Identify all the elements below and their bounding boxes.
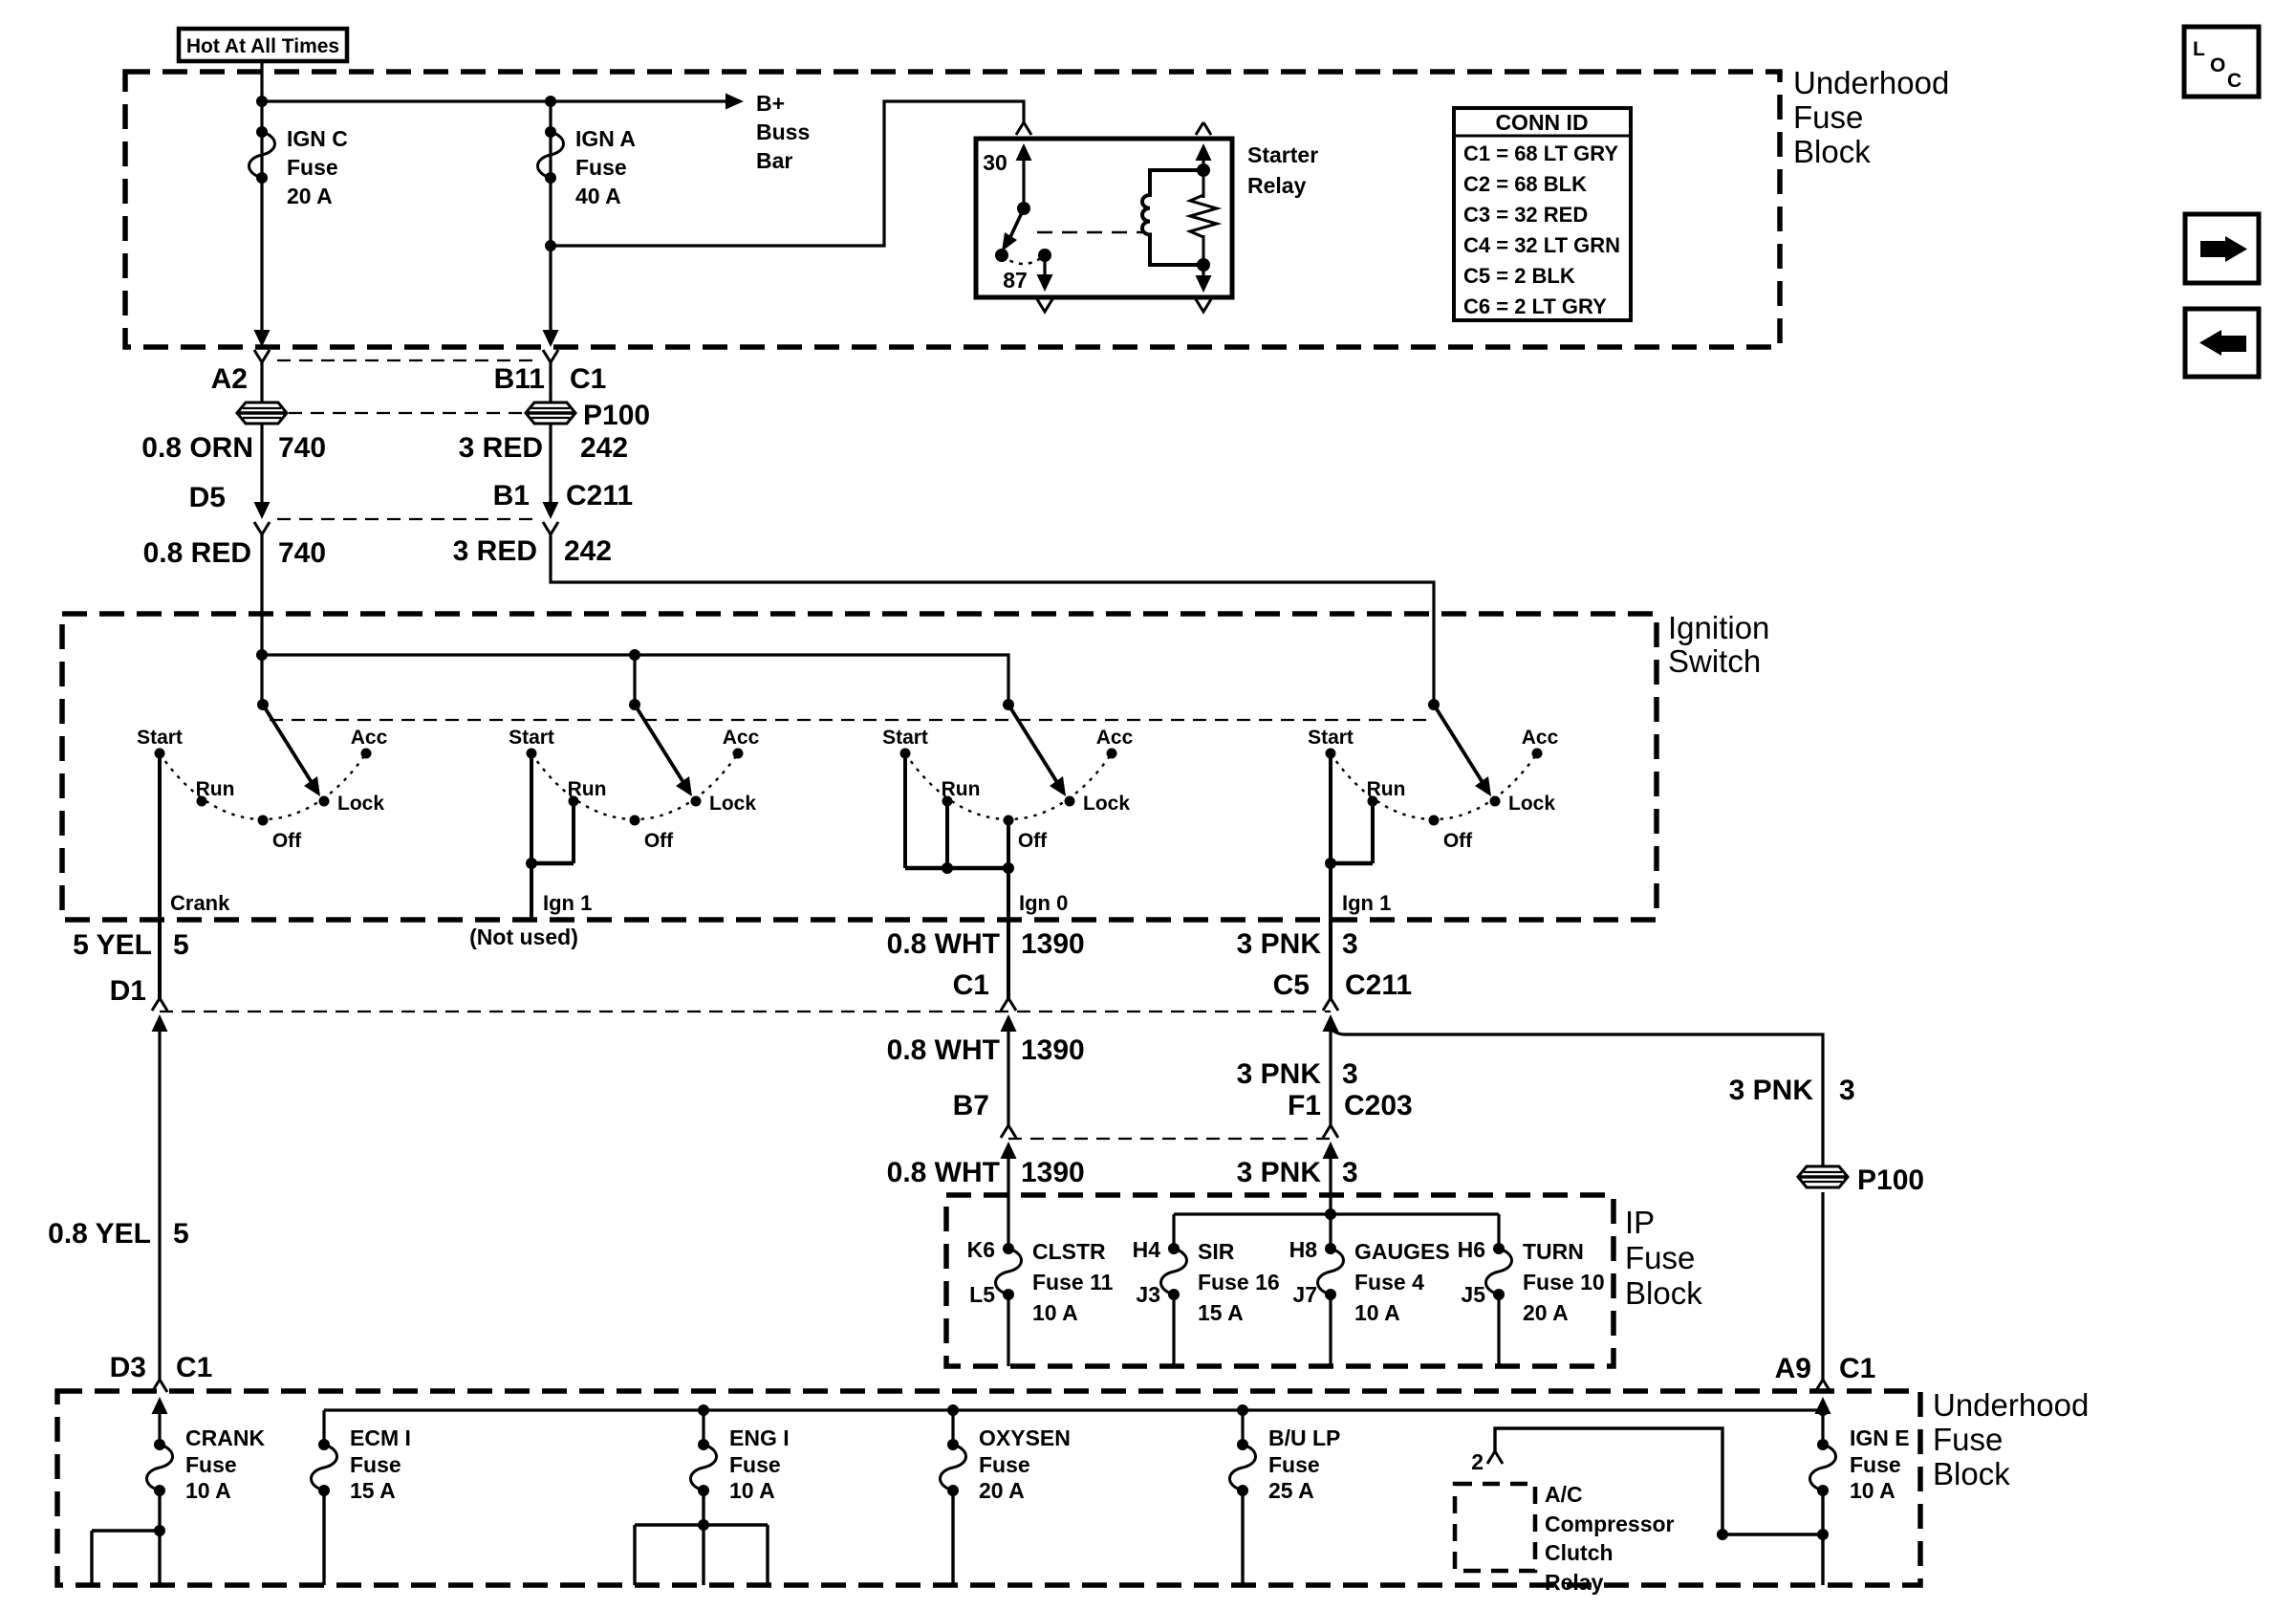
svg-text:Off: Off xyxy=(644,830,674,852)
svg-text:C1: C1 xyxy=(953,969,989,1001)
svg-text:H8: H8 xyxy=(1289,1237,1318,1262)
svg-text:GAUGES: GAUGES xyxy=(1354,1239,1450,1264)
svg-text:C1 = 68 LT GRY: C1 = 68 LT GRY xyxy=(1463,141,1618,165)
svg-text:Run: Run xyxy=(1367,778,1406,800)
svg-text:L: L xyxy=(2193,38,2205,60)
svg-text:TURN: TURN xyxy=(1523,1239,1584,1264)
svg-text:H4: H4 xyxy=(1133,1237,1161,1262)
svg-text:20 A: 20 A xyxy=(287,184,333,208)
svg-text:Acc: Acc xyxy=(351,727,388,749)
svg-text:Fuse: Fuse xyxy=(575,155,627,180)
svg-text:Off: Off xyxy=(1018,830,1048,852)
svg-text:J7: J7 xyxy=(1292,1282,1317,1307)
svg-text:ENG I: ENG I xyxy=(729,1425,790,1450)
svg-text:0.8 YEL: 0.8 YEL xyxy=(48,1218,151,1250)
svg-text:30: 30 xyxy=(983,150,1007,175)
svg-text:Acc: Acc xyxy=(1096,727,1134,749)
svg-text:5 YEL: 5 YEL xyxy=(73,929,152,961)
svg-text:20 A: 20 A xyxy=(979,1478,1025,1503)
svg-text:C1: C1 xyxy=(176,1352,212,1383)
svg-text:3: 3 xyxy=(1342,1157,1358,1188)
svg-text:Off: Off xyxy=(272,830,302,852)
svg-text:0.8 WHT: 0.8 WHT xyxy=(887,928,1000,960)
svg-text:Ignition: Ignition xyxy=(1668,610,1769,645)
svg-text:OXYSEN: OXYSEN xyxy=(979,1425,1071,1450)
svg-text:Start: Start xyxy=(1308,727,1354,749)
svg-text:D3: D3 xyxy=(110,1352,146,1383)
svg-text:3 PNK: 3 PNK xyxy=(1237,928,1322,960)
svg-text:Fuse 11: Fuse 11 xyxy=(1032,1270,1114,1295)
svg-text:P100: P100 xyxy=(1857,1164,1924,1196)
svg-text:1390: 1390 xyxy=(1021,1157,1085,1188)
svg-text:Lock: Lock xyxy=(1508,793,1555,815)
svg-text:0.8 WHT: 0.8 WHT xyxy=(887,1157,1000,1188)
svg-text:87: 87 xyxy=(1003,268,1028,293)
svg-text:Start: Start xyxy=(882,727,928,749)
svg-text:3 PNK: 3 PNK xyxy=(1237,1157,1322,1188)
svg-text:Fuse 10: Fuse 10 xyxy=(1523,1270,1605,1295)
svg-text:B7: B7 xyxy=(953,1090,989,1121)
svg-text:740: 740 xyxy=(278,537,326,569)
svg-text:2: 2 xyxy=(1471,1449,1484,1474)
svg-text:3: 3 xyxy=(1839,1075,1855,1106)
svg-text:Block: Block xyxy=(1933,1456,2010,1491)
svg-text:25 A: 25 A xyxy=(1268,1478,1314,1503)
svg-text:ECM I: ECM I xyxy=(350,1425,411,1450)
svg-text:15 A: 15 A xyxy=(350,1478,396,1503)
svg-text:Start: Start xyxy=(137,727,183,749)
svg-text:5: 5 xyxy=(173,929,189,961)
svg-text:Block: Block xyxy=(1625,1275,1702,1311)
svg-text:C1: C1 xyxy=(1839,1353,1875,1384)
svg-text:J5: J5 xyxy=(1461,1282,1485,1307)
svg-text:10 A: 10 A xyxy=(1032,1300,1078,1325)
svg-text:0.8 RED: 0.8 RED xyxy=(143,537,251,569)
svg-text:Off: Off xyxy=(1443,830,1473,852)
svg-text:Compressor: Compressor xyxy=(1545,1512,1675,1536)
svg-text:B+: B+ xyxy=(756,91,785,116)
svg-text:15 A: 15 A xyxy=(1198,1300,1244,1325)
svg-text:3 RED: 3 RED xyxy=(453,535,537,567)
svg-text:IGN C: IGN C xyxy=(287,126,348,151)
svg-text:L5: L5 xyxy=(969,1282,995,1307)
svg-text:Ign 1: Ign 1 xyxy=(1342,891,1391,915)
svg-text:Run: Run xyxy=(942,778,981,800)
svg-text:1390: 1390 xyxy=(1021,1034,1085,1066)
svg-text:Start: Start xyxy=(509,727,554,749)
svg-text:D5: D5 xyxy=(189,482,226,513)
svg-text:F1: F1 xyxy=(1288,1090,1321,1121)
svg-text:Fuse: Fuse xyxy=(1933,1422,2003,1457)
svg-text:A9: A9 xyxy=(1775,1353,1811,1384)
svg-text:Fuse: Fuse xyxy=(979,1452,1030,1477)
svg-text:0.8 WHT: 0.8 WHT xyxy=(887,1034,1000,1066)
svg-text:Switch: Switch xyxy=(1668,643,1761,679)
svg-text:Buss: Buss xyxy=(756,120,810,144)
svg-text:10 A: 10 A xyxy=(185,1478,231,1503)
svg-text:C203: C203 xyxy=(1344,1090,1413,1121)
svg-text:(Not used): (Not used) xyxy=(469,925,578,949)
svg-text:Fuse: Fuse xyxy=(287,155,338,180)
svg-text:242: 242 xyxy=(564,535,612,567)
svg-text:0.8 ORN: 0.8 ORN xyxy=(141,432,253,464)
svg-text:B/U LP: B/U LP xyxy=(1268,1425,1340,1450)
svg-text:Run: Run xyxy=(568,778,607,800)
svg-text:IGN A: IGN A xyxy=(575,126,636,151)
svg-text:A2: A2 xyxy=(211,363,248,395)
svg-text:Fuse: Fuse xyxy=(1850,1452,1901,1477)
svg-text:C4 = 32 LT GRN: C4 = 32 LT GRN xyxy=(1463,233,1620,257)
svg-text:242: 242 xyxy=(580,432,628,464)
svg-text:Lock: Lock xyxy=(1083,793,1130,815)
svg-text:C: C xyxy=(2227,70,2242,92)
svg-text:Fuse 4: Fuse 4 xyxy=(1354,1270,1424,1295)
svg-text:Ign 1: Ign 1 xyxy=(543,891,592,915)
svg-text:3: 3 xyxy=(1342,1058,1358,1090)
svg-text:10 A: 10 A xyxy=(729,1478,775,1503)
svg-text:3 PNK: 3 PNK xyxy=(1729,1075,1814,1106)
svg-text:Underhood: Underhood xyxy=(1793,65,1949,100)
svg-text:40 A: 40 A xyxy=(575,184,621,208)
svg-text:D1: D1 xyxy=(110,975,146,1007)
svg-text:Starter: Starter xyxy=(1247,142,1318,167)
svg-text:A/C: A/C xyxy=(1545,1482,1583,1507)
svg-text:Hot At All Times: Hot At All Times xyxy=(186,35,339,57)
svg-text:CONN ID: CONN ID xyxy=(1495,110,1588,135)
svg-text:10 A: 10 A xyxy=(1850,1478,1895,1503)
svg-text:Fuse 16: Fuse 16 xyxy=(1198,1270,1280,1295)
svg-text:B1: B1 xyxy=(493,480,530,511)
svg-text:Crank: Crank xyxy=(170,891,230,915)
svg-text:C3 = 32 RED: C3 = 32 RED xyxy=(1463,203,1588,227)
svg-text:Fuse: Fuse xyxy=(729,1452,781,1477)
svg-text:C211: C211 xyxy=(566,480,633,511)
svg-text:B11: B11 xyxy=(494,363,545,395)
svg-text:10 A: 10 A xyxy=(1354,1300,1400,1325)
svg-text:C6 = 2 LT GRY: C6 = 2 LT GRY xyxy=(1463,294,1607,318)
svg-text:H6: H6 xyxy=(1458,1237,1485,1262)
svg-text:C2 = 68 BLK: C2 = 68 BLK xyxy=(1463,172,1587,196)
svg-text:Acc: Acc xyxy=(723,727,760,749)
svg-text:Fuse: Fuse xyxy=(185,1452,237,1477)
svg-text:C5 = 2 BLK: C5 = 2 BLK xyxy=(1463,264,1575,288)
svg-text:K6: K6 xyxy=(967,1237,995,1262)
svg-text:740: 740 xyxy=(278,432,326,464)
svg-text:Relay: Relay xyxy=(1545,1570,1604,1595)
svg-text:Bar: Bar xyxy=(756,148,792,173)
svg-text:3 RED: 3 RED xyxy=(459,432,543,464)
svg-text:3: 3 xyxy=(1342,928,1358,960)
svg-text:Lock: Lock xyxy=(709,793,756,815)
svg-text:Run: Run xyxy=(196,778,235,800)
svg-text:IP: IP xyxy=(1625,1205,1655,1240)
svg-text:O: O xyxy=(2210,54,2225,76)
svg-text:Lock: Lock xyxy=(337,793,384,815)
svg-text:20 A: 20 A xyxy=(1523,1300,1569,1325)
svg-text:C211: C211 xyxy=(1345,969,1412,1001)
svg-text:C1: C1 xyxy=(570,363,606,395)
svg-text:Fuse: Fuse xyxy=(1268,1452,1320,1477)
svg-text:5: 5 xyxy=(173,1218,189,1250)
svg-text:C5: C5 xyxy=(1273,969,1310,1001)
svg-text:J3: J3 xyxy=(1136,1282,1160,1307)
svg-text:Relay: Relay xyxy=(1247,173,1307,198)
svg-text:SIR: SIR xyxy=(1198,1239,1235,1264)
svg-text:CLSTR: CLSTR xyxy=(1032,1239,1106,1264)
svg-text:Fuse: Fuse xyxy=(1625,1240,1695,1275)
svg-text:Underhood: Underhood xyxy=(1933,1387,2089,1423)
svg-text:Ign 0: Ign 0 xyxy=(1019,891,1068,915)
svg-text:Fuse: Fuse xyxy=(350,1452,401,1477)
svg-text:P100: P100 xyxy=(583,400,650,431)
svg-text:1390: 1390 xyxy=(1021,928,1085,960)
svg-text:IGN E: IGN E xyxy=(1850,1425,1910,1450)
svg-text:3 PNK: 3 PNK xyxy=(1237,1058,1322,1090)
svg-text:Block: Block xyxy=(1793,134,1871,169)
svg-text:Fuse: Fuse xyxy=(1793,99,1863,135)
svg-text:CRANK: CRANK xyxy=(185,1425,265,1450)
svg-text:Acc: Acc xyxy=(1522,727,1559,749)
svg-text:Clutch: Clutch xyxy=(1545,1540,1614,1565)
